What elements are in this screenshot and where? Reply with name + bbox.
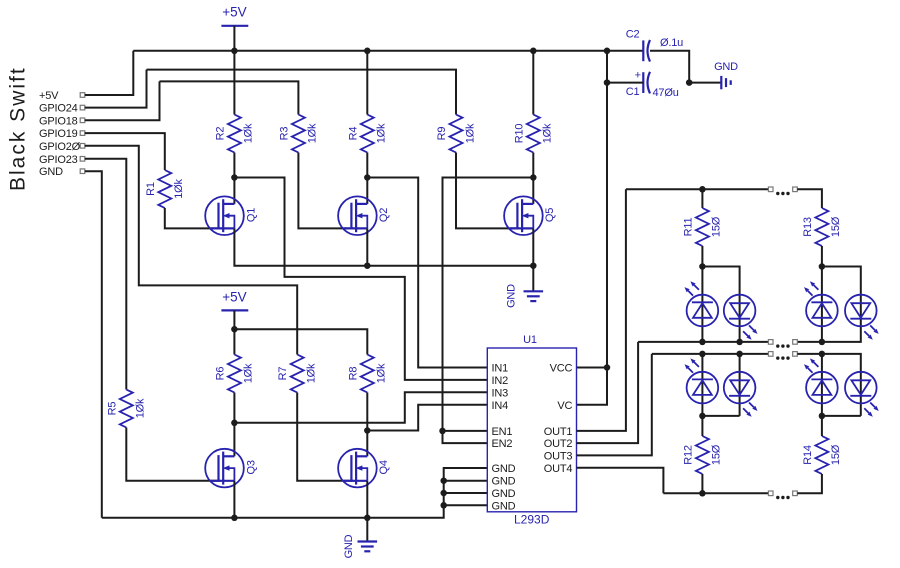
svg-text:R3: R3 [278, 127, 290, 141]
resistor R10 10k [513, 115, 553, 153]
svg-text:Black Swift: Black Swift [6, 66, 29, 191]
svg-text:15Ø: 15Ø [711, 444, 723, 465]
op-amp U1 L293D [487, 334, 576, 527]
svg-text:1Øk: 1Øk [376, 123, 388, 143]
svg-text:R11: R11 [682, 218, 694, 237]
LED D6 [724, 372, 758, 417]
LED D7 [804, 358, 838, 403]
power +5V lower [221, 290, 248, 311]
pin GPIO18 [39, 115, 85, 127]
wire rail1 left [638, 341, 768, 343]
wire Q1 drain to IN2 [234, 178, 487, 380]
svg-text:GND: GND [492, 476, 516, 488]
svg-text:Q3: Q3 [245, 460, 257, 474]
capacitor C1 [626, 70, 679, 99]
wire R5 to Q3 gate [126, 428, 220, 481]
junction Q5 source [530, 262, 537, 269]
wire LED6 [739, 354, 741, 416]
junction Q3 source [231, 515, 238, 522]
wire GPIO18 riser [85, 81, 160, 120]
ground symbol lower [358, 542, 378, 552]
svg-text:Q1: Q1 [245, 208, 257, 222]
svg-text:GND: GND [714, 61, 738, 73]
wire R7 to Q4 gate [297, 393, 353, 481]
transistor Q2 [338, 196, 390, 235]
wire to GND top right [689, 82, 721, 84]
svg-text:GND: GND [506, 284, 518, 308]
junction LED3 bottom [819, 339, 826, 346]
junction Q2 drain [364, 174, 371, 181]
junction GND4 [440, 502, 447, 509]
wire GND3 [444, 492, 488, 494]
wire R6 to Q3 drain [233, 393, 235, 457]
wire +5V node down to VCC [606, 83, 608, 368]
LED D2 [724, 295, 758, 340]
resistor R7 10k [277, 355, 317, 393]
svg-text:1Øk: 1Øk [173, 179, 185, 199]
svg-text:GPIO2Ø: GPIO2Ø [39, 141, 81, 153]
wire +5V to R6 [233, 329, 235, 354]
wire rail3 right to R14 [797, 474, 822, 493]
wire R9 to Q5 gate [456, 153, 520, 229]
svg-text:OUT2: OUT2 [544, 438, 573, 450]
wire rail to R10 [532, 51, 534, 115]
wire VC connection [577, 368, 608, 405]
wire R1 to Q1 gate [165, 208, 221, 228]
offpage pin B2 [793, 340, 798, 345]
wire Q2 source [366, 228, 368, 265]
wire OUT2 riser [577, 342, 639, 443]
junction LED pair 3 [819, 263, 826, 270]
svg-text:+5V: +5V [222, 5, 246, 20]
svg-text:1Øk: 1Øk [376, 363, 388, 383]
wire R3 to Q2 gate [298, 153, 353, 229]
svg-text:R14: R14 [802, 445, 814, 465]
LED D5 [685, 358, 719, 403]
junction Q4 source [364, 515, 371, 522]
junction R12 bottom [699, 490, 706, 497]
svg-text:L293D: L293D [514, 513, 550, 527]
junction C2 node [604, 48, 611, 55]
wire VCC [577, 367, 608, 369]
wire +5V pin to rail [85, 51, 134, 95]
wire GPIO24 riser [85, 70, 147, 108]
transistor Q1 [205, 196, 257, 235]
svg-text:1Øk: 1Øk [243, 123, 255, 143]
pin GPIO24 [39, 103, 85, 115]
wire rail2 right [797, 354, 861, 416]
transistor Q3 [205, 449, 257, 488]
wire R11 to LED pair [701, 246, 703, 342]
svg-text:C1: C1 [626, 86, 640, 98]
wire top LED rail [626, 188, 769, 190]
wire Q2 drain to IN1 [367, 178, 487, 368]
junction LED1 bottom [699, 339, 706, 346]
svg-text:IN2: IN2 [492, 375, 509, 387]
wire rail to R2 [233, 51, 235, 115]
wire LED5 [701, 354, 703, 416]
junction VCC [604, 364, 611, 371]
svg-text:R12: R12 [682, 445, 694, 465]
offpage pin B1 [768, 340, 773, 345]
wire LED2 top [702, 267, 739, 342]
wire Q5 drain to EN [443, 178, 534, 444]
junction Q1 drain [231, 174, 238, 181]
svg-text:R9: R9 [436, 127, 448, 141]
svg-text:Q5: Q5 [544, 208, 556, 222]
node ellipsis B [776, 344, 779, 347]
wire GPIO19 to R1 [85, 133, 165, 170]
svg-text:R8: R8 [347, 367, 359, 381]
svg-text:Q4: Q4 [378, 460, 390, 474]
resistor R11 150 [682, 208, 722, 246]
svg-text:EN1: EN1 [492, 426, 513, 438]
resistor R2 10k [214, 115, 254, 153]
junction C1 left node [604, 79, 611, 86]
LED D3 [804, 281, 838, 326]
svg-text:+5V: +5V [222, 290, 246, 305]
wire Q3 drain to IN3 [234, 392, 487, 423]
wire +5V lower stub [233, 310, 235, 329]
transistor Q4 [338, 449, 390, 488]
wire R13 to LED pair [821, 246, 823, 342]
svg-text:15Ø: 15Ø [830, 444, 842, 465]
resistor R3 10k [278, 115, 318, 153]
svg-text:R2: R2 [214, 127, 226, 141]
wire +5V lower rail to R8 [234, 329, 367, 354]
svg-text:VCC: VCC [550, 363, 573, 375]
svg-text:GPIO19: GPIO19 [39, 128, 78, 140]
offpage pin A1 [768, 187, 773, 192]
svg-text:R4: R4 [347, 127, 359, 141]
wire +5V symbol to rail [233, 26, 235, 51]
wire R2 to Q1 drain [233, 153, 235, 204]
svg-text:Q2: Q2 [378, 208, 390, 222]
wire R8 to Q4 drain [366, 393, 368, 457]
svg-text:+5V: +5V [39, 90, 59, 102]
offpage pin C2 [793, 352, 798, 357]
wire Q4 drain to IN4 [367, 405, 487, 431]
wire EN1 [443, 430, 488, 432]
junction GND3 [440, 490, 447, 497]
wire GPIO20 to R7 [85, 146, 297, 355]
ground symbol upper [524, 291, 544, 301]
wire source rail [234, 228, 533, 265]
wire LED4 top and rail1 right [797, 267, 861, 342]
resistor R4 10k [347, 115, 387, 153]
svg-text:GND: GND [492, 500, 516, 512]
wire GPIO18 rail to R3 [160, 81, 299, 114]
junction +5V/R2 [231, 48, 238, 55]
pin GND [39, 166, 85, 178]
pin GPIO20 [39, 141, 85, 153]
junction EN1 [439, 428, 446, 435]
wire R10 to Q5 drain [532, 153, 534, 204]
wire Q3 source [233, 481, 235, 518]
svg-text:IN3: IN3 [492, 387, 509, 399]
resistor R6 10k [214, 355, 254, 393]
svg-text:15Ø: 15Ø [711, 216, 723, 237]
wire GND rail [102, 468, 488, 518]
resistor R1 10k [145, 170, 185, 208]
junction LED6 top [736, 351, 743, 358]
LED D4 [845, 295, 879, 340]
wire OUT3 riser [577, 354, 652, 456]
resistor R8 10k [347, 355, 387, 393]
wire rail3 left [663, 492, 768, 494]
svg-text:IN4: IN4 [492, 400, 509, 412]
svg-text:OUT4: OUT4 [544, 463, 573, 475]
svg-text:GND: GND [343, 534, 355, 558]
svg-text:1Øk: 1Øk [135, 398, 147, 418]
svg-text:GPIO24: GPIO24 [39, 103, 78, 115]
svg-text:VC: VC [557, 400, 572, 412]
wire Q5 source to ground [532, 228, 534, 291]
LED D8 [845, 372, 879, 417]
svg-text:15Ø: 15Ø [830, 216, 842, 237]
LED D1 [685, 281, 719, 326]
junction +5V lower [231, 326, 238, 333]
junction Q5 drain [530, 174, 537, 181]
resistor R14 150 [802, 436, 842, 474]
pin GPIO23 [39, 154, 85, 166]
svg-text:GND: GND [39, 166, 63, 178]
wire GPIO23 to R5 [85, 159, 127, 390]
pin GPIO19 [39, 128, 85, 140]
transistor Q5 [504, 196, 556, 235]
junction R10 [530, 48, 537, 55]
svg-text:47Øu: 47Øu [653, 87, 679, 99]
wire C1 left [607, 82, 643, 84]
wire Q4 source to ground [366, 481, 368, 542]
svg-text:R13: R13 [802, 217, 814, 237]
resistor R12 150 [682, 436, 722, 474]
svg-text:R7: R7 [277, 367, 289, 381]
junction LED2 bottom [736, 339, 743, 346]
junction LED pair 1 [699, 263, 706, 270]
ground GND top right [714, 61, 738, 73]
wire rail to R4 [366, 51, 368, 115]
svg-text:R1: R1 [145, 182, 157, 196]
wire R4 to Q2 drain [366, 153, 368, 204]
svg-text:1Øk: 1Øk [464, 123, 476, 143]
svg-text:R5: R5 [106, 402, 118, 416]
resistor R13 150 [802, 208, 842, 246]
svg-text:GPIO23: GPIO23 [39, 154, 78, 166]
junction Q4 drain [364, 427, 371, 434]
wire GND2 [444, 480, 488, 482]
svg-text:R6: R6 [214, 367, 226, 381]
junction GND2 [440, 477, 447, 484]
junction R4 [364, 48, 371, 55]
svg-text:1Øk: 1Øk [542, 123, 554, 143]
ground symbol top right [721, 76, 730, 89]
svg-text:EN2: EN2 [492, 438, 513, 450]
wire R12 to rail3 [701, 474, 703, 493]
junction LED pair 2 [699, 413, 706, 420]
svg-text:1Øk: 1Øk [306, 363, 318, 383]
svg-text:Ø.1u: Ø.1u [660, 37, 683, 49]
node ellipsis C [776, 356, 779, 359]
wire pair4 to R14 [821, 416, 823, 436]
junction C1 right [686, 79, 693, 86]
svg-text:1Øk: 1Øk [243, 363, 255, 383]
wire top rail to R13 [797, 189, 822, 208]
junction Q2 source [364, 262, 371, 269]
svg-text:U1: U1 [523, 334, 537, 346]
wire OUT1 riser [577, 189, 626, 431]
offpage pin A2 [793, 187, 798, 192]
node ellipsis D [776, 496, 779, 499]
wire LED7 [821, 354, 823, 416]
wire GPIO24 rail to R9 [147, 70, 457, 115]
offpage pin D1 [768, 491, 773, 496]
wire +5V rail1 [133, 50, 643, 52]
wire GND4 [444, 504, 488, 506]
svg-text:+: + [635, 70, 641, 82]
wire pair4 bottom [822, 415, 861, 417]
wire pair2 to R12 [701, 416, 703, 436]
offpage pin D2 [793, 491, 798, 496]
wire GND pin riser [85, 171, 102, 518]
svg-text:1Øk: 1Øk [307, 123, 319, 143]
junction LED7 top [819, 351, 826, 358]
svg-text:IN1: IN1 [492, 363, 509, 375]
svg-text:R10: R10 [513, 124, 525, 144]
svg-text:OUT1: OUT1 [544, 426, 573, 438]
node ellipsis A [776, 192, 779, 195]
junction LED pair 4 [819, 413, 826, 420]
power +5V top [221, 5, 248, 26]
wire rail2 left [652, 353, 769, 355]
offpage pin C1 [768, 352, 773, 357]
wire R11 top lead [701, 189, 703, 208]
junction R11 top [699, 186, 706, 193]
wire pair2 bottom [702, 415, 739, 417]
junction LED5 top [699, 351, 706, 358]
svg-text:C2: C2 [626, 29, 640, 41]
svg-text:OUT3: OUT3 [544, 450, 573, 462]
svg-text:GND: GND [492, 463, 516, 475]
resistor R9 10k [436, 115, 476, 153]
pin +5V [39, 90, 85, 102]
junction Q3 drain [231, 420, 238, 427]
capacitor C2 [626, 29, 683, 62]
wire OUT4 riser [577, 468, 664, 494]
svg-text:GPIO18: GPIO18 [39, 115, 78, 127]
resistor R5 10k [106, 390, 146, 428]
wire node down C2-C1 [606, 51, 608, 83]
wire C2 right down [650, 51, 689, 83]
svg-text:GND: GND [492, 488, 516, 500]
